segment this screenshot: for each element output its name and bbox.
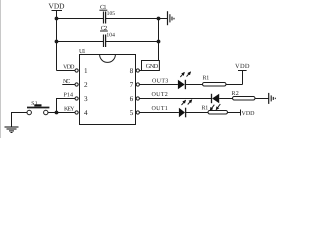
wire (219, 98, 233, 100)
resistor R1 (203, 75, 227, 86)
wire (139, 70, 141, 72)
LED D1 (178, 72, 191, 89)
svg-text:KEY: KEY (64, 107, 75, 113)
wire (186, 112, 208, 114)
power VDD (241, 110, 256, 117)
pin 6 (130, 95, 140, 103)
wire (106, 18, 168, 20)
svg-text:104: 104 (106, 32, 115, 38)
svg-text:1: 1 (84, 67, 88, 75)
svg-text:OUT1: OUT1 (152, 106, 168, 112)
wire (62, 84, 75, 86)
junction (55, 40, 59, 44)
svg-text:8: 8 (130, 67, 134, 75)
wire (57, 18, 104, 20)
pin 5 (130, 109, 140, 117)
capacitor C1 (99, 4, 115, 24)
pin 4 (75, 109, 88, 117)
junction (157, 17, 161, 21)
svg-text:U1: U1 (79, 48, 86, 55)
ground (269, 93, 276, 104)
svg-text:OUT3: OUT3 (152, 78, 168, 84)
svg-text:5: 5 (130, 109, 134, 117)
svg-text:NC: NC (63, 79, 70, 85)
ground (5, 127, 19, 133)
wire (185, 84, 202, 86)
switch S1 (27, 101, 49, 115)
svg-text:2: 2 (84, 81, 88, 89)
wire (139, 84, 178, 86)
svg-text:OUT2: OUT2 (152, 92, 168, 98)
wire (57, 41, 104, 43)
svg-text:6: 6 (130, 95, 134, 103)
power VDD (235, 63, 250, 84)
junction (55, 17, 59, 21)
svg-text:VDD: VDD (63, 65, 75, 71)
wire (255, 98, 268, 100)
pin 1 (75, 67, 88, 75)
wire (226, 84, 243, 86)
svg-text:VDD: VDD (242, 111, 256, 117)
wire (57, 99, 76, 113)
capacitor C2 (100, 25, 115, 47)
resistor R2 (232, 91, 256, 100)
svg-text:3: 3 (84, 95, 88, 103)
svg-text:VDD: VDD (49, 1, 66, 10)
ground (168, 11, 175, 25)
wire (106, 41, 159, 43)
wire (12, 113, 28, 127)
wire (227, 112, 240, 114)
ic U1 (79, 48, 136, 125)
svg-text:P14: P14 (64, 93, 74, 99)
junction (55, 111, 59, 115)
net label GND (142, 61, 160, 71)
wire (139, 112, 179, 114)
LED D3 (179, 100, 192, 117)
diode D2 (212, 94, 220, 103)
wire (139, 98, 211, 100)
pin 8 (130, 67, 140, 75)
pin 3 (75, 95, 88, 103)
junction (157, 40, 161, 44)
wire (158, 19, 160, 61)
svg-text:R1: R1 (202, 105, 209, 111)
photoresistor R3 (202, 104, 228, 114)
pin 2 (75, 81, 88, 89)
svg-text:7: 7 (130, 81, 134, 89)
svg-text:4: 4 (84, 109, 88, 117)
svg-text:VDD: VDD (235, 63, 250, 70)
wire (48, 112, 75, 114)
pin 7 (130, 81, 140, 89)
power VDD (49, 1, 76, 70)
svg-text:R1: R1 (203, 75, 210, 81)
svg-text:105: 105 (107, 11, 116, 17)
svg-text:GND: GND (146, 63, 159, 70)
